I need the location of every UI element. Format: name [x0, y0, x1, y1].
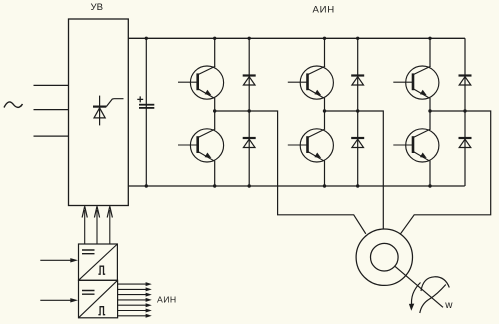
capacitor C wire [145, 38, 147, 186]
input arrow to A2 [40, 299, 75, 301]
junction nodes top rail [145, 37, 432, 40]
leg 3 collector/emitter wires [429, 38, 431, 66]
wire phase A [215, 111, 366, 234]
wire phase B [325, 111, 384, 229]
diode VD1 wire [248, 38, 250, 186]
control box A1 (rectifier controller) [79, 244, 118, 280]
transistor VT1 [178, 66, 224, 99]
capacitor C plates [139, 104, 154, 106]
diode VD6 [459, 138, 472, 148]
rotation arrow arc 1 (with arrowhead) [411, 283, 420, 307]
diode VD3 wire (with top-rail corner) [464, 38, 466, 186]
diode VD2 [351, 76, 364, 86]
output arrows АИН [118, 284, 147, 316]
motor rotor [371, 243, 399, 271]
gate pulse arrows to УВ [85, 210, 110, 244]
diode VD3 [459, 76, 472, 86]
diode VD4 [243, 138, 256, 148]
rotation arrow arc 2 crest [421, 277, 449, 291]
leg 2 collector/emitter wires [324, 38, 326, 66]
rectifier box УВ [69, 19, 129, 206]
svg-text:АИН: АИН [157, 294, 177, 304]
wire phase C [401, 111, 491, 234]
motor M stator [356, 229, 412, 285]
thyristor VS [93, 96, 124, 126]
phase input wire L1 [34, 84, 69, 86]
phase input wire L3 [34, 135, 69, 137]
ac source symbol ~ [4, 102, 23, 108]
wire: DC+ top rail [128, 37, 465, 39]
diode VD2 wire [357, 38, 359, 186]
transistor VT4 [178, 129, 224, 162]
transistor VT5 [288, 129, 334, 162]
junction nodes bottom rail [145, 184, 432, 187]
phase input wire L2 [34, 109, 69, 111]
svg-text:w: w [444, 300, 453, 311]
capacitor + sign [137, 96, 143, 102]
diode VD1 [243, 76, 256, 86]
svg-text:УВ: УВ [91, 2, 104, 13]
junction nodes phase rails [213, 109, 467, 112]
transistor VT6 [393, 129, 439, 162]
rotation arrow arc 3 [420, 285, 446, 314]
control box A2 (inverter controller) [79, 280, 118, 318]
input arrow to A1 [40, 259, 75, 261]
transistor VT2 [288, 66, 334, 99]
diode VD5 [351, 138, 364, 148]
wire: DC- bottom rail [128, 185, 465, 187]
leg 1 collector/emitter wires [214, 38, 216, 66]
transistor VT3 [393, 66, 439, 99]
motor shaft [395, 266, 443, 307]
svg-text:АИН: АИН [313, 5, 335, 16]
